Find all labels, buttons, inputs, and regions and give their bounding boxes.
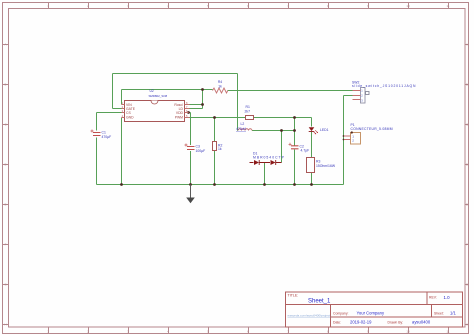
- node L2/C2 junction: [293, 129, 296, 132]
- node P1 pin1 junction: [343, 135, 345, 137]
- svg-text:15Ohm/16W: 15Ohm/16W: [316, 164, 336, 168]
- svg-text:U2: U2: [150, 89, 154, 93]
- svg-text:100µF: 100µF: [196, 149, 206, 153]
- svg-text:470µF: 470µF: [102, 135, 112, 139]
- svg-text:E: E: [466, 203, 468, 207]
- svg-text:A: A: [466, 43, 468, 47]
- capacitor C3: [185, 144, 206, 153]
- SW2 pin stubs 1 2 3: [353, 91, 361, 100]
- svg-text:D: D: [466, 163, 468, 167]
- svg-text:H: H: [466, 323, 468, 327]
- U2 pin names VIN GATE CS GND / Rosc LD VDD PWM: [126, 103, 184, 120]
- svg-text:2019-02-19: 2019-02-19: [350, 320, 372, 325]
- node R2 top junction: [213, 116, 216, 119]
- op-amp U2 IC body SMD802_SO8: [122, 89, 190, 122]
- capacitor C1: [91, 130, 112, 139]
- P1 pin stubs 1 2: [344, 136, 351, 140]
- R2 designator and value labels: [218, 143, 222, 151]
- node L2/D1 junction: [280, 129, 283, 132]
- C3 designator and value labels: [196, 145, 206, 153]
- svg-text:F: F: [5, 243, 7, 247]
- node GND rail junction: [120, 183, 123, 186]
- wire C2 column upper: [294, 118, 296, 146]
- wire C1 column lower: [96, 138, 98, 185]
- wire C3 column lower: [190, 151, 192, 185]
- svg-text:R1: R1: [246, 105, 250, 109]
- wire SW2 pin2 horizontal: [344, 95, 353, 97]
- wire LED top drop: [311, 118, 313, 127]
- svg-text:Sheet:: Sheet:: [434, 311, 444, 315]
- svg-text:1k: 1k: [218, 147, 222, 151]
- resistor R4: [213, 80, 228, 93]
- resistor R3: [307, 158, 336, 173]
- svg-text:easyeda.com/aysu0400/project: easyeda.com/aysu0400/project: [288, 314, 331, 318]
- R4 designator and value labels: [218, 80, 222, 89]
- resistor R1: [245, 105, 254, 120]
- L2 designator and value labels: [236, 122, 247, 131]
- svg-text:F: F: [466, 243, 468, 247]
- svg-text:SMD802_SO8: SMD802_SO8: [149, 94, 168, 98]
- svg-text:PWM: PWM: [175, 116, 183, 120]
- wire right column to rail: [343, 96, 345, 185]
- wire L2 row: [238, 130, 295, 132]
- wire R1 right to LED corner: [254, 117, 312, 119]
- node C2 rail junction: [293, 183, 296, 186]
- C2 designator and value labels: [300, 144, 310, 152]
- svg-text:GND: GND: [126, 116, 134, 120]
- top ticks: [49, 3, 449, 9]
- wire C2 column lower: [294, 150, 296, 185]
- wire LED to R3: [311, 132, 313, 158]
- wire R3 to rail: [311, 173, 313, 185]
- U2 pin numbers 1-4 / 8-5: [122, 101, 188, 118]
- SW2 designator and part labels: [352, 81, 416, 89]
- svg-text:11: 11: [446, 4, 449, 8]
- wire D1 right vertical: [281, 131, 283, 163]
- left ticks: [3, 45, 9, 325]
- svg-text:E: E: [5, 203, 7, 207]
- svg-text:Your Company: Your Company: [357, 311, 385, 316]
- U2 designator and value labels: [149, 89, 168, 98]
- svg-text:CONNECTEUR_5.08MM: CONNECTEUR_5.08MM: [351, 127, 393, 131]
- wire GATE horizontal to pin: [113, 108, 122, 110]
- svg-text:2k7: 2k7: [245, 110, 251, 114]
- wire VDD to C3 column: [189, 112, 191, 114]
- P1 designator and part labels: [351, 123, 393, 131]
- wire C3 column upper: [190, 113, 192, 146]
- svg-text:B: B: [5, 83, 7, 87]
- node D1 rail junction: [263, 183, 266, 186]
- wire R2 top drop: [214, 118, 216, 142]
- svg-text:slide_switch_JS102011JAQN: slide_switch_JS102011JAQN: [352, 84, 416, 88]
- wire bottom rail: [97, 184, 344, 186]
- SW2 pin numbers 1 2 3: [361, 89, 363, 103]
- connector P1: [344, 123, 393, 144]
- svg-text:L2: L2: [241, 122, 245, 126]
- svg-text:REV:: REV:: [429, 296, 437, 300]
- svg-text:4.7µF: 4.7µF: [301, 149, 310, 153]
- LED1: [309, 127, 329, 134]
- svg-text:10: 10: [406, 330, 410, 334]
- R1 designator and value labels: [245, 105, 251, 114]
- wire R4 right segment to SW2: [228, 90, 353, 92]
- wire VIN drop: [121, 90, 123, 105]
- wire D1 center drop: [264, 163, 266, 185]
- wire GND drop: [121, 118, 123, 185]
- inductor L2: [236, 122, 252, 131]
- svg-text:Sheet_1: Sheet_1: [308, 299, 331, 305]
- node Rosc junction: [201, 103, 204, 106]
- svg-text:1k: 1k: [218, 85, 222, 89]
- R3 designator and value labels: [316, 160, 336, 168]
- svg-text:1.0: 1.0: [444, 295, 451, 300]
- svg-text:C: C: [4, 123, 6, 127]
- wire PWM row to R1: [190, 117, 246, 119]
- wire R2 bottom drop: [214, 151, 216, 185]
- switch SW2: [352, 81, 416, 104]
- wire CS to left column: [97, 112, 122, 114]
- node R4/Rosc junction: [201, 88, 204, 91]
- diode D1 MBR0540CTP (dual): [250, 152, 285, 166]
- svg-text:B: B: [466, 83, 468, 87]
- svg-text:H: H: [4, 323, 6, 327]
- D1 designator and value labels: [253, 152, 285, 160]
- node R2 rail junction: [213, 183, 216, 186]
- wire R4 left segment: [122, 89, 213, 91]
- svg-text:MBR0540CTP: MBR0540CTP: [253, 156, 285, 160]
- node R3 rail junction: [310, 183, 313, 186]
- right ticks: [465, 45, 469, 325]
- junction dots: [120, 88, 344, 186]
- capacitor C2: [289, 143, 310, 153]
- svg-text:LED1: LED1: [320, 128, 329, 132]
- wire Rosc to node: [190, 104, 203, 106]
- svg-text:TITLE:: TITLE:: [288, 294, 299, 298]
- svg-text:CS: CS: [126, 111, 131, 115]
- svg-text:aysu0400: aysu0400: [412, 320, 431, 325]
- U2 pin stubs (pins 1-4 left, 5-8 right): [122, 105, 190, 118]
- svg-text:VDD: VDD: [176, 111, 184, 115]
- node P1 pin2 junction: [343, 139, 345, 141]
- svg-text:470uH: 470uH: [236, 127, 247, 131]
- svg-text:D: D: [4, 163, 6, 167]
- C1 designator and value labels: [102, 131, 112, 139]
- bottom ticks: [49, 327, 449, 334]
- wire top net GATE to L2: [113, 73, 238, 75]
- node VDD junction: [187, 111, 190, 114]
- ground: [186, 185, 195, 204]
- node C2 top junction: [293, 116, 296, 119]
- wire LD to node: [190, 108, 203, 110]
- svg-text:Drawn By:: Drawn By:: [388, 320, 404, 324]
- svg-text:11: 11: [446, 330, 449, 334]
- svg-text:C: C: [466, 123, 468, 127]
- svg-text:A: A: [5, 43, 7, 47]
- node C3 rail junction: [189, 183, 192, 186]
- svg-text:Date:: Date:: [333, 320, 341, 324]
- title block: [286, 292, 463, 327]
- wire C1 column upper: [96, 113, 98, 131]
- svg-text:R4: R4: [218, 80, 222, 84]
- svg-text:1/1: 1/1: [450, 311, 456, 316]
- P1 pin numbers 1 2: [352, 134, 354, 142]
- wire node vertical at x=202.5: [202, 90, 204, 109]
- svg-text:10: 10: [406, 4, 410, 8]
- svg-text:Company:: Company:: [333, 311, 349, 315]
- resistor R2: [213, 142, 223, 152]
- wire L2 drop vertical: [237, 74, 239, 131]
- wire GATE vertical: [112, 74, 114, 109]
